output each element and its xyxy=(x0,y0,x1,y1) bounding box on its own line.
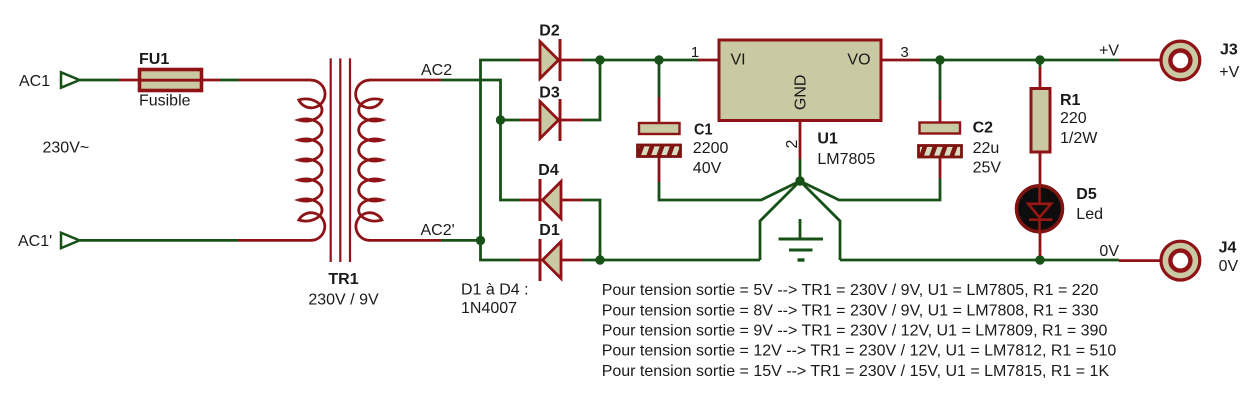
svg-text:Led: Led xyxy=(1076,206,1103,223)
svg-text:230V~: 230V~ xyxy=(43,140,90,157)
svg-text:25V: 25V xyxy=(973,160,1002,177)
svg-text:220: 220 xyxy=(1060,110,1087,127)
svg-text:Pour tension sortie = 8V --> T: Pour tension sortie = 8V --> TR1 = 230V … xyxy=(602,302,1099,319)
svg-text:J4: J4 xyxy=(1219,240,1237,257)
svg-text:3: 3 xyxy=(900,44,908,61)
svg-text:AC1': AC1' xyxy=(18,233,52,250)
svg-text:VO: VO xyxy=(847,52,870,69)
svg-text:D4: D4 xyxy=(538,162,559,179)
svg-text:40V: 40V xyxy=(693,160,722,177)
svg-text:0V: 0V xyxy=(1099,243,1119,260)
svg-text:C1: C1 xyxy=(694,122,713,139)
svg-text:+V: +V xyxy=(1099,43,1119,60)
svg-text:C2: C2 xyxy=(973,120,994,137)
svg-text:GND: GND xyxy=(793,75,810,111)
svg-text:Pour tension sortie = 15V -->: Pour tension sortie = 15V --> TR1 = 230V… xyxy=(602,363,1110,380)
svg-text:TR1: TR1 xyxy=(328,271,358,288)
svg-text:AC2: AC2 xyxy=(421,62,452,79)
svg-text:AC2': AC2' xyxy=(421,222,455,239)
svg-text:VI: VI xyxy=(731,52,746,69)
svg-text:Pour tension sortie = 9V --> T: Pour tension sortie = 9V --> TR1 = 230V … xyxy=(602,323,1108,340)
svg-text:1N4007: 1N4007 xyxy=(461,300,517,317)
svg-text:D3: D3 xyxy=(539,85,560,102)
svg-text:R1: R1 xyxy=(1060,92,1081,109)
svg-text:+V: +V xyxy=(1219,64,1239,81)
svg-text:230V / 9V: 230V / 9V xyxy=(308,291,379,308)
svg-text:FU1: FU1 xyxy=(139,51,169,68)
svg-text:U1: U1 xyxy=(817,131,838,148)
svg-text:Pour tension sortie = 5V --> T: Pour tension sortie = 5V --> TR1 = 230V … xyxy=(602,282,1099,299)
svg-text:LM7805: LM7805 xyxy=(817,151,875,168)
svg-text:1: 1 xyxy=(691,44,699,61)
svg-text:Pour tension sortie = 12V -->: Pour tension sortie = 12V --> TR1 = 230V… xyxy=(602,343,1117,360)
svg-text:D2: D2 xyxy=(539,23,560,40)
svg-text:1/2W: 1/2W xyxy=(1060,130,1098,147)
svg-text:22u: 22u xyxy=(973,140,1000,157)
svg-text:2: 2 xyxy=(784,139,801,148)
svg-text:D1: D1 xyxy=(539,222,560,239)
svg-text:2200: 2200 xyxy=(693,140,729,157)
svg-text:0V: 0V xyxy=(1219,258,1239,275)
svg-text:AC1: AC1 xyxy=(19,73,50,90)
svg-text:D5: D5 xyxy=(1076,186,1097,203)
svg-text:D1 à D4 :: D1 à D4 : xyxy=(461,281,529,298)
svg-text:Fusible: Fusible xyxy=(139,93,191,110)
svg-text:J3: J3 xyxy=(1220,42,1238,59)
